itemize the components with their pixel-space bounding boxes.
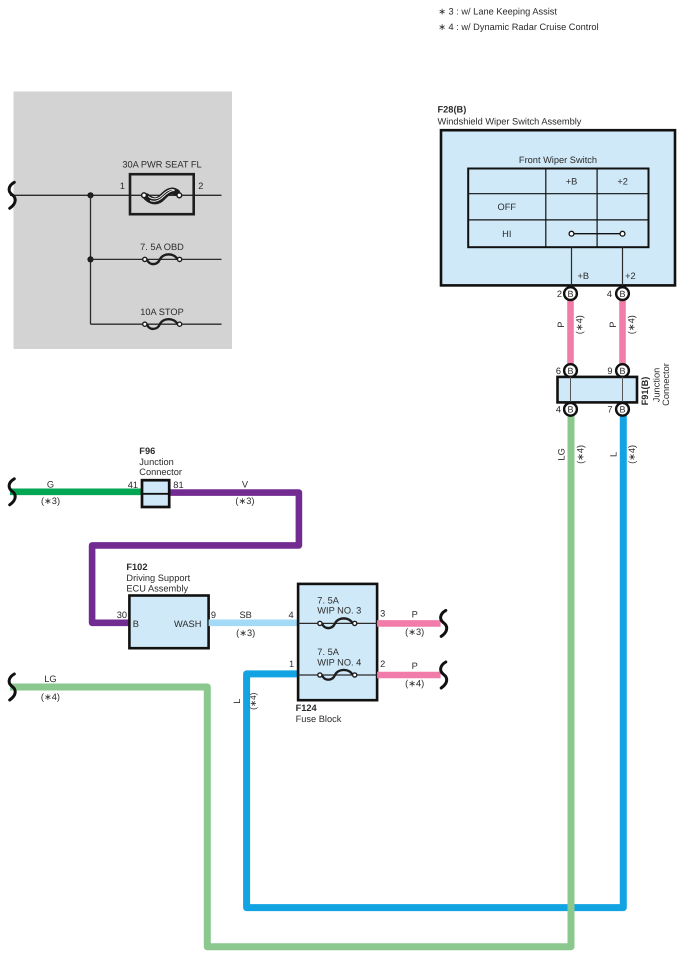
svg-text:F96: F96 (139, 446, 155, 456)
svg-text:Connector: Connector (139, 467, 182, 477)
ECU F102 Driving Support ECU Assembly (117, 562, 216, 648)
svg-text:Connector: Connector (661, 363, 671, 406)
harness squiggle: G wire (9, 479, 15, 505)
svg-text:F124: F124 (296, 703, 318, 713)
svg-text:ECU Assembly: ECU Assembly (126, 584, 188, 594)
connector body (142, 480, 169, 507)
svg-text:L: L (609, 452, 619, 457)
svg-text:WIP NO. 4: WIP NO. 4 (317, 657, 361, 667)
svg-text:L: L (232, 699, 242, 704)
svg-text:Junction: Junction (139, 457, 173, 467)
fuse block body (298, 584, 377, 700)
svg-text:30: 30 (117, 610, 127, 620)
fuse 7.5A WIP NO.3 (289, 596, 386, 629)
svg-text:(∗3): (∗3) (236, 628, 255, 638)
ECU body (129, 596, 208, 649)
wire: fuse bus vertical (90, 195, 92, 324)
label P (*4) on right pink wire (608, 315, 637, 334)
wire: OBD branch (91, 258, 222, 260)
pin 2 (B) of F28(B) (557, 287, 577, 300)
wire P: F28 pin 2 to F91 pin 6 (567, 300, 574, 365)
svg-text:(∗3): (∗3) (41, 496, 60, 506)
wire P: F28 pin 4 to F91 pin 9 (619, 300, 626, 365)
svg-text:∗ 4 : w/ Dynamic Radar Cruise: ∗ 4 : w/ Dynamic Radar Cruise Control (438, 22, 598, 32)
svg-text:81: 81 (173, 480, 183, 490)
connector body (558, 377, 638, 403)
wire L: F124 pin 1 to F91 pin 7 (blue) (247, 416, 624, 908)
fuse 10A STOP (91, 307, 222, 329)
wire: battery feed horizontal (10, 194, 222, 196)
terminal circles (142, 193, 147, 198)
svg-text:(∗3): (∗3) (405, 627, 424, 637)
svg-text:4: 4 (556, 405, 561, 415)
svg-text:F102: F102 (126, 562, 147, 572)
fuse symbol (318, 618, 357, 628)
label V (*3) (235, 479, 254, 506)
svg-text:+B: +B (578, 271, 590, 281)
svg-text:4: 4 (607, 289, 612, 299)
svg-text:7. 5A: 7. 5A (317, 647, 339, 657)
wire: STOP branch (91, 323, 222, 325)
svg-text:WASH: WASH (174, 619, 201, 629)
svg-text:(∗4): (∗4) (575, 315, 585, 334)
fusible link 30A PWR SEAT FL (120, 160, 204, 215)
wire LG: harness to F91 pin 4 (light green) (10, 416, 571, 947)
svg-text:Windshield Wiper Switch Assemb: Windshield Wiper Switch Assembly (438, 117, 582, 127)
svg-text:SB: SB (240, 610, 252, 620)
wire P: F124 pin 2 to harness (pink) (377, 672, 441, 679)
svg-text:2: 2 (557, 289, 562, 299)
switch assembly F28(B) Windshield Wiper Switch Assembly (438, 104, 676, 288)
svg-text:30A PWR SEAT FL: 30A PWR SEAT FL (122, 160, 201, 170)
svg-text:WIP NO. 3: WIP NO. 3 (317, 606, 361, 616)
svg-text:3: 3 (380, 609, 385, 619)
svg-text:(∗4): (∗4) (248, 692, 258, 709)
harness squiggle: P wire of WIP NO.3 (441, 610, 447, 636)
label G (*3) (41, 479, 60, 506)
svg-text:(∗4): (∗4) (575, 445, 585, 464)
fuse symbol (318, 670, 357, 680)
wire: +B internal (571, 247, 573, 288)
svg-text:2: 2 (380, 659, 385, 669)
junction dot: OBD branch (87, 256, 93, 262)
switch state table (468, 169, 648, 248)
svg-text:Fuse Block: Fuse Block (296, 714, 342, 724)
junction connector F96 (128, 446, 184, 507)
svg-text:Junction: Junction (651, 368, 661, 402)
svg-text:+B: +B (566, 176, 578, 186)
svg-text:10A STOP: 10A STOP (140, 307, 184, 317)
fuse 7.5A OBD (91, 242, 222, 264)
svg-text:LG: LG (557, 448, 567, 460)
svg-text:B: B (133, 619, 139, 629)
label SB (*3) (236, 610, 255, 638)
label L (*4) near left blue riser (232, 692, 258, 709)
svg-text:(∗4): (∗4) (41, 692, 60, 702)
svg-text:(∗4): (∗4) (627, 315, 637, 334)
harness squiggle: battery feed (9, 182, 15, 208)
fuse symbol (143, 319, 182, 329)
svg-text:∗ 3 : w/ Lane Keeping Assist: ∗ 3 : w/ Lane Keeping Assist (438, 7, 557, 17)
svg-text:Front Wiper Switch: Front Wiper Switch (519, 155, 597, 165)
svg-text:HI: HI (502, 229, 511, 239)
harness squiggle: P wire of WIP NO.4 (441, 662, 447, 688)
svg-text:P: P (412, 609, 418, 619)
svg-text:7. 5A OBD: 7. 5A OBD (140, 242, 184, 252)
wire SB: F102 pin 9 to F124 pin 4 (sky blue) (209, 619, 299, 626)
svg-text:1: 1 (120, 181, 125, 191)
label P (*3) (405, 609, 424, 637)
label L (*4) on blue riser (609, 445, 638, 464)
svg-text:7. 5A: 7. 5A (317, 596, 339, 606)
fusible link ribbon element (147, 191, 177, 201)
wire V: F96 pin 81 to F102 pin 30 (violet) (92, 493, 299, 623)
svg-text:OFF: OFF (498, 202, 517, 212)
svg-text:V: V (242, 479, 249, 489)
svg-text:41: 41 (128, 480, 138, 490)
svg-text:P: P (608, 322, 618, 328)
wire P: F124 pin 3 to harness (pink) (377, 620, 441, 627)
svg-text:9: 9 (211, 610, 216, 620)
label P (*4) on left pink wire (556, 315, 585, 334)
label P (*4) (405, 661, 424, 689)
svg-text:4: 4 (289, 610, 294, 620)
svg-text:(∗4): (∗4) (405, 679, 424, 689)
fusible link box (130, 174, 194, 214)
svg-text:F28(B): F28(B) (438, 104, 467, 114)
svg-text:P: P (412, 661, 418, 671)
svg-text:Driving Support: Driving Support (126, 573, 190, 583)
wire through fuse (298, 674, 377, 676)
svg-text:2: 2 (198, 181, 203, 191)
junction dot: feed to fuse bus (87, 192, 93, 198)
svg-text:F91(B): F91(B) (640, 377, 650, 406)
svg-text:P: P (556, 322, 566, 328)
fuse block F124 (296, 584, 378, 724)
label LG (*4) on green riser (557, 445, 586, 464)
note legend *3 / *4 options (438, 7, 598, 33)
wire: +2 internal (622, 247, 624, 288)
pin 4 (B) of F28(B) (607, 287, 629, 300)
assembly box (441, 130, 675, 285)
power source block (gray background) (14, 92, 233, 350)
svg-text:G: G (47, 479, 54, 489)
fuse symbol (143, 254, 182, 264)
harness squiggle: LG wire (9, 674, 15, 700)
svg-text:1: 1 (289, 659, 294, 669)
wire through fuse (298, 622, 377, 624)
svg-text:+2: +2 (617, 176, 628, 186)
svg-text:6: 6 (556, 366, 561, 376)
fuse 7.5A WIP NO.4 (289, 647, 385, 680)
svg-text:7: 7 (607, 405, 612, 415)
HI position contact (572, 233, 623, 235)
svg-text:+2: +2 (625, 271, 636, 281)
svg-text:LG: LG (44, 674, 56, 684)
junction connector F91(B) (556, 363, 671, 416)
svg-text:(∗3): (∗3) (235, 496, 254, 506)
svg-text:9: 9 (607, 366, 612, 376)
svg-text:(∗4): (∗4) (627, 445, 637, 464)
label LG (*4) bottom left (41, 674, 60, 702)
wire G: harness to F96 pin 41 (green) (10, 488, 143, 495)
